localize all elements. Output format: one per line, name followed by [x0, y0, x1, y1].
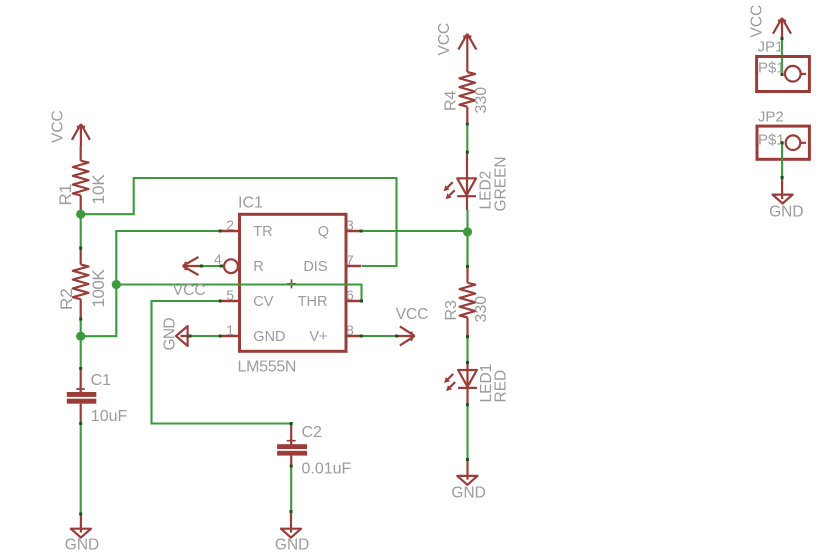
svg-text:DIS: DIS — [303, 259, 327, 275]
wire R2 bottom to junction — [80, 319, 82, 336]
pin 1 GND stub — [220, 335, 239, 337]
svg-text:R3: R3 — [443, 300, 460, 321]
svg-text:Q: Q — [318, 224, 329, 240]
pin 8 V+ stub — [345, 335, 361, 337]
svg-text:1: 1 — [226, 322, 234, 338]
svg-text:R4: R4 — [443, 90, 460, 111]
resistor R4 — [459, 57, 475, 124]
junction node R1-R2 — [76, 210, 85, 219]
pin 3 Q stub — [345, 230, 361, 232]
label R1 — [56, 184, 75, 206]
label GND (below C2) — [275, 537, 309, 554]
pin 6 number — [346, 287, 354, 303]
svg-text:C1: C1 — [91, 372, 112, 389]
junction node R2/C1 — [76, 332, 85, 341]
svg-text:8: 8 — [346, 322, 354, 338]
wire end marks — [79, 37, 783, 516]
label LED1 — [478, 364, 495, 403]
svg-text:CV: CV — [253, 294, 273, 310]
svg-text:JP2: JP2 — [758, 108, 784, 125]
IC1 name label — [238, 195, 263, 212]
label GND (below JP2) — [769, 204, 803, 221]
pin label P$1 (JP1) — [758, 60, 785, 77]
svg-text:GND: GND — [275, 537, 309, 554]
ground GND symbol (below LED1) — [457, 460, 477, 485]
pin name TR — [253, 224, 272, 240]
pin 2 number — [226, 217, 234, 233]
junction node TR/THR riser — [112, 280, 121, 289]
label R2 — [57, 288, 76, 310]
svg-text:VCC: VCC — [396, 306, 429, 323]
svg-text:3: 3 — [346, 217, 354, 233]
label GND (below LED1) — [451, 484, 485, 501]
supply VCC symbol at pin 8 (pointing right) — [397, 326, 415, 345]
value 10uF — [91, 408, 128, 425]
pin label P$1 (JP2) — [758, 132, 785, 149]
pin name GND — [253, 329, 285, 345]
value RED — [493, 370, 510, 403]
pin 5 CV stub — [220, 300, 239, 302]
label JP2 — [758, 108, 784, 125]
svg-text:TR: TR — [253, 224, 272, 240]
svg-text:2: 2 — [226, 217, 234, 233]
supply VCC symbol (above JP1) — [773, 18, 791, 39]
connector JP1 — [757, 57, 810, 92]
svg-text:0.01uF: 0.01uF — [302, 461, 352, 478]
resistor R2 — [73, 249, 89, 320]
wire R3 to LED1 — [466, 337, 468, 363]
ground GND symbol (below C1) — [71, 515, 91, 538]
label R4 — [443, 90, 460, 111]
svg-text:JP1: JP1 — [758, 38, 784, 55]
wire C1 bottom to GND — [80, 423, 82, 514]
svg-text:GND: GND — [162, 318, 179, 351]
connector JP2 — [757, 126, 809, 159]
label GND (below C1) — [65, 537, 99, 554]
pin name THR — [298, 294, 328, 310]
label VCC (top left supply) — [50, 110, 67, 143]
svg-text:5: 5 — [226, 287, 234, 303]
label C2 — [302, 424, 323, 441]
pin 6 THR stub — [345, 300, 362, 302]
value GREEN — [493, 156, 510, 211]
svg-text:P$1: P$1 — [758, 132, 785, 149]
wire C1 top — [80, 337, 82, 369]
pin 4 number — [214, 251, 222, 267]
svg-text:VCC: VCC — [436, 23, 453, 56]
wire pin4 to VCC — [201, 265, 221, 267]
svg-text:GND: GND — [451, 484, 485, 501]
wire R1/R2 junction to DIS net — [83, 178, 397, 266]
value 330 (R4) — [473, 87, 490, 114]
capacitor C2 — [277, 424, 307, 467]
svg-text:7: 7 — [346, 252, 354, 268]
svg-text:GND: GND — [769, 204, 803, 221]
IC1 origin crosshair — [287, 279, 296, 288]
wire C2 bottom to GND — [290, 466, 292, 512]
pin 7 number — [346, 252, 354, 268]
pin 1 number — [226, 322, 234, 338]
label C1 — [91, 372, 112, 389]
pin 7 DIS stub — [345, 265, 361, 267]
IC U1 LM555N timer body — [240, 214, 347, 351]
wire junction to R3 — [466, 234, 468, 266]
LED D2 (LED2 GREEN) — [444, 152, 476, 210]
svg-text:10K: 10K — [89, 174, 108, 205]
svg-text:R2: R2 — [57, 288, 76, 310]
pin 3 number — [346, 217, 354, 233]
svg-text:VCC: VCC — [173, 282, 206, 299]
svg-text:330: 330 — [473, 87, 490, 114]
svg-text:IC1: IC1 — [238, 195, 263, 212]
pin name R — [253, 259, 263, 275]
value 0.01uF — [302, 461, 352, 478]
svg-text:R: R — [253, 259, 263, 275]
supply VCC symbol (top left) — [72, 124, 90, 146]
pin name DIS — [303, 259, 327, 275]
label LED2 — [478, 171, 495, 210]
svg-text:4: 4 — [214, 251, 222, 267]
pin name Q — [318, 224, 329, 240]
ground GND symbol at pin 1 (pointing left) — [176, 326, 190, 346]
wire LED1 to GND — [466, 405, 468, 460]
svg-text:THR: THR — [298, 294, 328, 310]
svg-text:GND: GND — [65, 537, 99, 554]
value 10K — [89, 174, 108, 205]
svg-text:10uF: 10uF — [91, 408, 128, 425]
LED D1 (LED1 RED) — [444, 363, 477, 405]
svg-text:6: 6 — [346, 287, 354, 303]
wire pin8 to VCC — [361, 335, 396, 337]
svg-text:R1: R1 — [56, 184, 75, 206]
wire TR net (pin2, vertical riser, THR crossover, to R2 bottom) — [83, 231, 362, 336]
svg-text:GND: GND — [253, 329, 285, 345]
wire R4 to LED2 — [466, 124, 468, 152]
label VCC (pin 4 supply) — [173, 282, 206, 299]
svg-text:LM555N: LM555N — [238, 359, 297, 376]
pin 4 R stub with inversion bubble — [221, 259, 238, 273]
label VCC (pin 8 supply) — [396, 306, 429, 323]
resistor R1 — [73, 146, 89, 212]
svg-text:RED: RED — [493, 370, 510, 403]
supply VCC symbol (top of R4) — [458, 34, 476, 57]
supply VCC symbol at pin 4 (pointing left) — [183, 257, 202, 275]
svg-text:GREEN: GREEN — [493, 156, 510, 211]
label VCC (R4 supply) — [436, 23, 453, 56]
wire VCC to JP1 pin — [781, 38, 783, 74]
wire pin1 to GND — [190, 335, 220, 337]
wire junction down to R2 — [80, 216, 82, 249]
value 100K — [89, 269, 108, 308]
svg-text:100K: 100K — [89, 269, 108, 308]
capacitor C1 — [67, 369, 97, 424]
pin 5 number — [226, 287, 234, 303]
label GND (pin 1 ground) — [162, 318, 179, 351]
wire pin5 CV to C2 — [152, 301, 292, 424]
pin 8 number — [346, 322, 354, 338]
pin name CV — [253, 294, 273, 310]
value 330 (R3) — [473, 296, 490, 323]
svg-text:330: 330 — [473, 296, 490, 323]
wire Q output to LED chain — [361, 210, 467, 266]
svg-text:V+: V+ — [309, 329, 327, 345]
svg-text:C2: C2 — [302, 424, 323, 441]
svg-text:VCC: VCC — [50, 110, 67, 143]
resistor R3 — [460, 266, 476, 336]
label R3 — [443, 300, 460, 321]
pin name V+ — [309, 329, 327, 345]
IC1 value label LM555N — [238, 359, 297, 376]
junction node Q/LED — [463, 227, 472, 236]
ground GND symbol (below JP2) — [773, 178, 793, 204]
label VCC (JP1 supply) — [749, 5, 766, 38]
label JP1 — [758, 38, 784, 55]
pin 2 TR stub — [220, 230, 239, 232]
svg-text:VCC: VCC — [749, 5, 766, 38]
wire JP2 pin to GND — [781, 143, 783, 178]
ground GND symbol (below C2) — [281, 512, 301, 538]
